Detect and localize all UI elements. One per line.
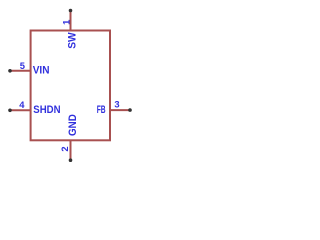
component body U1 bbox=[31, 31, 110, 141]
svg-text:SHDN: SHDN bbox=[33, 104, 60, 116]
svg-text:FB: FB bbox=[97, 104, 106, 116]
pin 1 SW wire bbox=[70, 11, 72, 31]
pin 3 end dot bbox=[128, 108, 132, 112]
svg-text:VIN: VIN bbox=[33, 64, 50, 76]
pin 3 FB wire bbox=[110, 109, 130, 111]
pin 4 end dot bbox=[8, 109, 12, 113]
svg-text:4: 4 bbox=[19, 99, 25, 110]
pin 1 end dot bbox=[69, 9, 73, 13]
pin 5 end dot bbox=[8, 69, 12, 73]
svg-text:1: 1 bbox=[61, 20, 72, 25]
svg-text:5: 5 bbox=[20, 60, 25, 71]
pin 2 end dot bbox=[69, 158, 73, 162]
pin 4 SHDN wire bbox=[10, 109, 31, 111]
svg-text:2: 2 bbox=[59, 146, 70, 151]
svg-text:3: 3 bbox=[114, 99, 119, 110]
pin 5 VIN wire bbox=[10, 70, 31, 72]
svg-text:SW: SW bbox=[66, 32, 78, 49]
svg-text:GND: GND bbox=[67, 114, 79, 136]
pin 2 GND wire bbox=[70, 140, 72, 160]
